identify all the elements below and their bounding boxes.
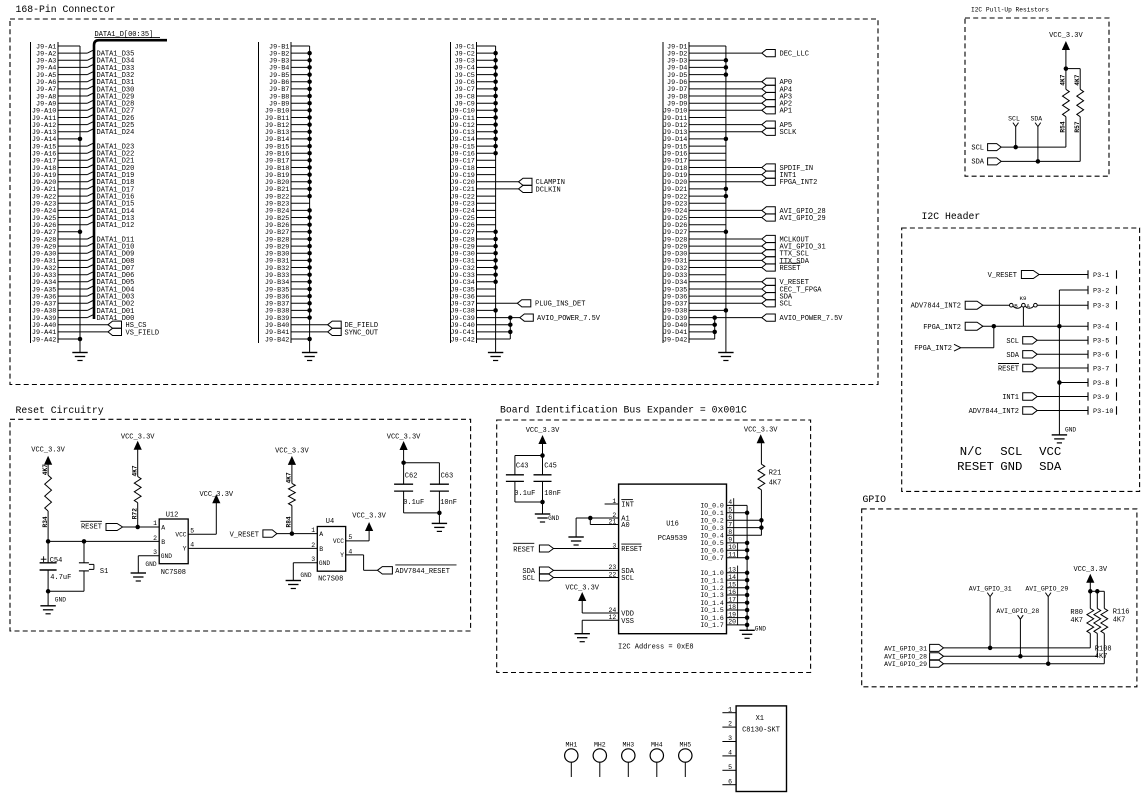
svg-text:AVI_GPIO_29: AVI_GPIO_29 — [884, 661, 927, 668]
svg-text:MH1: MH1 — [565, 741, 577, 748]
svg-text:GND: GND — [1065, 427, 1076, 434]
svg-text:1: 1 — [153, 520, 157, 527]
svg-text:2: 2 — [728, 721, 732, 728]
svg-text:168-Pin Connector: 168-Pin Connector — [16, 4, 116, 15]
svg-text:Board Identification Bus Expan: Board Identification Bus Expander = 0x00… — [500, 405, 747, 416]
svg-text:IO_1.6: IO_1.6 — [700, 615, 724, 622]
svg-text:4: 4 — [348, 548, 352, 555]
svg-text:GND: GND — [319, 560, 330, 567]
svg-text:6: 6 — [728, 778, 732, 785]
svg-text:VCC_3.3V: VCC_3.3V — [199, 491, 233, 499]
svg-text:SCLK: SCLK — [780, 129, 798, 137]
svg-text:C63: C63 — [441, 473, 454, 481]
svg-text:V_RESET: V_RESET — [230, 531, 259, 539]
svg-text:5: 5 — [348, 534, 352, 541]
svg-text:AVI_GPIO_31: AVI_GPIO_31 — [884, 645, 927, 652]
svg-text:GND: GND — [145, 561, 156, 568]
svg-text:SCL: SCL — [971, 144, 984, 152]
svg-text:4K7: 4K7 — [286, 472, 293, 483]
svg-text:NC7S08: NC7S08 — [318, 576, 343, 584]
svg-text:4K7: 4K7 — [1095, 653, 1108, 661]
svg-text:R72: R72 — [131, 508, 138, 519]
svg-text:RESET: RESET — [513, 546, 534, 554]
svg-text:C43: C43 — [516, 463, 529, 471]
svg-text:SCL: SCL — [780, 301, 793, 309]
svg-text:AVI_GPIO_29: AVI_GPIO_29 — [1025, 586, 1068, 593]
svg-text:SDA: SDA — [1039, 460, 1062, 474]
svg-text:U16: U16 — [666, 521, 679, 529]
svg-text:VCC_3.3V: VCC_3.3V — [275, 447, 309, 455]
svg-text:ADV7844_INT2: ADV7844_INT2 — [969, 408, 1019, 416]
svg-text:VCC: VCC — [333, 538, 344, 545]
svg-text:RESET: RESET — [780, 265, 801, 273]
svg-text:N/C: N/C — [960, 445, 982, 459]
svg-text:AVIO_POWER_7.5V: AVIO_POWER_7.5V — [780, 315, 844, 323]
svg-text:IO_0.1: IO_0.1 — [700, 510, 724, 517]
svg-text:Y: Y — [183, 546, 187, 553]
svg-text:K9: K9 — [1020, 295, 1027, 302]
svg-text:X1: X1 — [756, 715, 764, 723]
svg-text:SYNC_OUT: SYNC_OUT — [345, 329, 379, 337]
svg-text:I2C Address = 0xE8: I2C Address = 0xE8 — [618, 644, 694, 652]
svg-text:AVI_GPIO_28: AVI_GPIO_28 — [996, 608, 1039, 615]
svg-text:4K7: 4K7 — [131, 465, 138, 476]
svg-text:P3-5: P3-5 — [1093, 338, 1109, 346]
svg-text:C54: C54 — [50, 557, 63, 565]
svg-text:GND: GND — [161, 553, 172, 560]
svg-text:A: A — [319, 531, 323, 538]
svg-text:VCC_3.3V: VCC_3.3V — [1049, 32, 1083, 40]
svg-text:I2C Pull-Up Resistors: I2C Pull-Up Resistors — [971, 7, 1049, 14]
svg-text:2: 2 — [153, 535, 157, 542]
svg-text:P3-1: P3-1 — [1093, 272, 1109, 280]
svg-text:R57: R57 — [1074, 121, 1081, 132]
svg-text:IO_0.0: IO_0.0 — [700, 503, 724, 510]
svg-text:DATA1_D12: DATA1_D12 — [97, 222, 135, 230]
svg-text:P3-9: P3-9 — [1093, 394, 1109, 402]
svg-text:AVI_GPIO_29: AVI_GPIO_29 — [780, 215, 826, 223]
svg-text:IO_0.3: IO_0.3 — [700, 525, 724, 532]
svg-text:IO_0.7: IO_0.7 — [700, 555, 724, 562]
svg-text:C8130-SKT: C8130-SKT — [742, 727, 780, 735]
svg-text:4K7: 4K7 — [769, 479, 782, 487]
svg-text:VCC_3.3V: VCC_3.3V — [526, 427, 560, 435]
svg-text:SDA: SDA — [1006, 352, 1019, 360]
svg-text:U12: U12 — [166, 512, 179, 520]
svg-text:GND: GND — [548, 515, 559, 522]
svg-text:0.1uF: 0.1uF — [403, 499, 424, 507]
svg-text:3: 3 — [728, 735, 732, 742]
svg-text:5: 5 — [190, 527, 194, 534]
svg-text:VCC_3.3V: VCC_3.3V — [352, 512, 386, 520]
svg-text:MH4: MH4 — [651, 741, 663, 748]
svg-text:J9-B42: J9-B42 — [265, 336, 289, 344]
svg-text:U4: U4 — [326, 518, 334, 526]
svg-text:P3-8: P3-8 — [1093, 380, 1109, 388]
svg-text:0.1uF: 0.1uF — [514, 490, 535, 498]
svg-text:4K7: 4K7 — [1070, 617, 1083, 625]
svg-text:FPGA_INT2: FPGA_INT2 — [923, 324, 961, 332]
svg-text:P3-2: P3-2 — [1093, 287, 1109, 295]
svg-text:IO_1.4: IO_1.4 — [700, 600, 724, 607]
svg-text:INT: INT — [621, 502, 634, 510]
svg-text:SCL: SCL — [1006, 338, 1019, 346]
svg-text:4K7: 4K7 — [1113, 616, 1126, 624]
svg-text:B: B — [319, 546, 323, 553]
svg-text:VCC_3.3V: VCC_3.3V — [744, 426, 778, 434]
svg-text:SCL: SCL — [1000, 445, 1022, 459]
svg-text:4K7: 4K7 — [1060, 74, 1067, 85]
svg-text:RESET: RESET — [957, 460, 994, 474]
svg-text:IO_1.1: IO_1.1 — [700, 577, 724, 584]
svg-text:SCL: SCL — [522, 575, 535, 583]
svg-text:GND: GND — [55, 596, 66, 603]
svg-text:VCC_3.3V: VCC_3.3V — [387, 433, 421, 441]
svg-text:C45: C45 — [544, 463, 557, 471]
svg-text:ADV7844_RESET: ADV7844_RESET — [395, 568, 450, 576]
svg-text:Reset Circuitry: Reset Circuitry — [16, 405, 104, 416]
svg-text:VCC_3.3V: VCC_3.3V — [1073, 566, 1107, 574]
svg-text:DCLKIN: DCLKIN — [536, 186, 561, 194]
svg-text:4K7: 4K7 — [1074, 74, 1081, 85]
svg-text:P3-10: P3-10 — [1093, 408, 1113, 416]
svg-text:A: A — [161, 525, 165, 532]
svg-text:4K7: 4K7 — [42, 464, 49, 475]
svg-text:V_RESET: V_RESET — [988, 272, 1017, 280]
svg-text:P3-4: P3-4 — [1093, 324, 1109, 332]
svg-text:IO_0.5: IO_0.5 — [700, 540, 724, 547]
svg-text:RESET: RESET — [621, 546, 642, 554]
svg-text:RESET: RESET — [81, 523, 102, 531]
svg-text:PCA9539: PCA9539 — [658, 535, 687, 543]
svg-text:MH5: MH5 — [679, 741, 691, 748]
svg-text:J9-A42: J9-A42 — [32, 336, 56, 344]
svg-text:5: 5 — [728, 764, 732, 771]
svg-text:A0: A0 — [621, 522, 629, 530]
svg-text:R84: R84 — [286, 516, 293, 527]
svg-text:P3-6: P3-6 — [1093, 352, 1109, 360]
svg-text:VS_FIELD: VS_FIELD — [126, 329, 160, 337]
svg-text:VCC_3.3V: VCC_3.3V — [31, 446, 65, 454]
svg-text:VCC_3.3V: VCC_3.3V — [565, 584, 599, 592]
svg-text:10nF: 10nF — [544, 490, 561, 498]
svg-text:GND: GND — [755, 626, 766, 633]
svg-text:FPGA_INT2: FPGA_INT2 — [914, 345, 952, 353]
svg-text:R54: R54 — [1060, 121, 1067, 132]
svg-text:RESET: RESET — [998, 366, 1019, 374]
svg-text:SCL: SCL — [1008, 115, 1020, 122]
svg-text:VCC: VCC — [1039, 445, 1061, 459]
svg-text:MH3: MH3 — [622, 741, 634, 748]
svg-text:SDA: SDA — [971, 159, 984, 167]
svg-text:ADV7844_INT2: ADV7844_INT2 — [911, 303, 961, 311]
svg-text:SDA: SDA — [1030, 115, 1042, 122]
svg-text:2: 2 — [311, 542, 315, 549]
svg-text:Y: Y — [340, 552, 344, 559]
svg-text:GND: GND — [1000, 460, 1022, 474]
svg-text:MH2: MH2 — [594, 741, 606, 748]
svg-text:10nF: 10nF — [440, 499, 457, 507]
svg-text:VSS: VSS — [621, 618, 634, 626]
svg-text:GND: GND — [300, 572, 311, 579]
svg-text:INT1: INT1 — [1002, 394, 1019, 402]
svg-text:I2C Header: I2C Header — [922, 211, 981, 222]
svg-text:PLUG_INS_DET: PLUG_INS_DET — [535, 301, 585, 309]
svg-text:J9-D42: J9-D42 — [663, 336, 687, 344]
svg-text:R34: R34 — [42, 516, 49, 527]
svg-text:4.7uF: 4.7uF — [50, 574, 71, 582]
svg-text:3: 3 — [153, 549, 157, 556]
svg-text:P3-3: P3-3 — [1093, 303, 1109, 311]
svg-text:3: 3 — [311, 556, 315, 563]
svg-text:IO_1.7: IO_1.7 — [700, 622, 724, 629]
svg-text:1: 1 — [311, 527, 315, 534]
svg-text:AVI_GPIO_31: AVI_GPIO_31 — [969, 586, 1012, 593]
svg-text:IO_1.5: IO_1.5 — [700, 607, 724, 614]
svg-text:AP1: AP1 — [780, 108, 793, 116]
svg-text:B: B — [161, 539, 165, 546]
svg-text:1: 1 — [728, 706, 732, 713]
svg-text:AVI_GPIO_28: AVI_GPIO_28 — [884, 654, 927, 661]
svg-text:IO_1.0: IO_1.0 — [700, 570, 724, 577]
svg-text:GPIO: GPIO — [863, 494, 887, 505]
svg-text:AVIO_POWER_7.5V: AVIO_POWER_7.5V — [537, 315, 601, 323]
svg-text:A: A — [1026, 303, 1030, 310]
svg-text:C62: C62 — [405, 473, 418, 481]
svg-text:J9-C42: J9-C42 — [450, 336, 474, 344]
svg-text:4: 4 — [728, 750, 732, 757]
svg-text:FPGA_INT2: FPGA_INT2 — [780, 179, 818, 187]
svg-text:SCL: SCL — [621, 575, 634, 583]
svg-text:IO_1.2: IO_1.2 — [700, 585, 724, 592]
svg-text:DEC_LLC: DEC_LLC — [780, 51, 809, 59]
svg-text:VCC_3.3V: VCC_3.3V — [121, 434, 155, 442]
svg-text:4: 4 — [190, 542, 194, 549]
svg-text:IO_0.6: IO_0.6 — [700, 547, 724, 554]
svg-text:VCC: VCC — [175, 531, 186, 538]
svg-text:IO_0.2: IO_0.2 — [700, 518, 724, 525]
svg-text:S1: S1 — [100, 568, 108, 576]
svg-text:R21: R21 — [769, 469, 782, 477]
svg-text:DATA1_D24: DATA1_D24 — [97, 129, 135, 137]
svg-text:B: B — [1014, 303, 1018, 310]
svg-text:IO_1.3: IO_1.3 — [700, 592, 724, 599]
svg-text:NC7S08: NC7S08 — [161, 569, 186, 577]
svg-text:IO_0.4: IO_0.4 — [700, 533, 724, 540]
svg-text:P3-7: P3-7 — [1093, 365, 1109, 373]
